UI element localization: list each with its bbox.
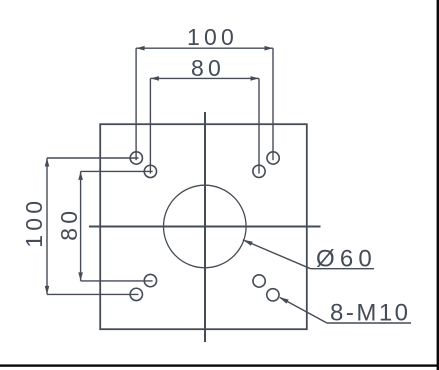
svg-text:80: 80 [191,55,225,81]
svg-text:100: 100 [21,197,47,248]
svg-text:8-M10: 8-M10 [330,300,411,327]
svg-text:80: 80 [56,207,82,241]
svg-text:Ø60: Ø60 [316,246,377,273]
svg-text:100: 100 [187,24,238,50]
